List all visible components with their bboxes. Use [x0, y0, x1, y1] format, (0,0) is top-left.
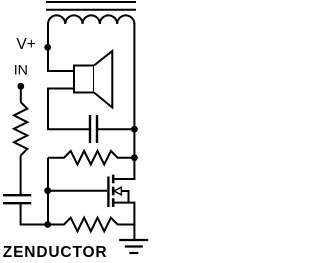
wire: R1 to capacitor C2	[20, 156, 22, 194]
MOSFET Q1 gate bar	[107, 177, 109, 208]
MOSFET Q1 body arrow	[114, 187, 121, 195]
ground bar 2	[125, 245, 143, 247]
resistor R1 (input, vertical)	[14, 102, 27, 156]
MOSFET Q1 channel segment (drain)	[112, 175, 115, 184]
junction dot C1 to right rail	[131, 126, 138, 133]
MOSFET Q1 body-to-source connection	[121, 191, 128, 203]
capacitor C1 right plate	[96, 115, 98, 143]
wire: gate node rail (left, vertical)	[47, 158, 49, 225]
wire: speaker bottom lead down-left to capacitor C1	[48, 89, 90, 130]
wire: gate lead	[48, 190, 107, 192]
resistor R2 (feedback, horizontal)	[48, 151, 134, 165]
junction dot bottom-left tee	[44, 221, 51, 228]
wire: capacitor C1 right lead to right rail	[97, 128, 134, 130]
MOSFET Q1 channel segment (source)	[112, 198, 115, 207]
svg-text:ZENDUCTOR: ZENDUCTOR	[3, 244, 108, 261]
wire: V+ rail from inductor left end down to speaker top lead	[48, 23, 74, 71]
wire: IN node stub	[20, 86, 22, 102]
MOSFET Q1 channel segment (body)	[112, 187, 115, 196]
wire: capacitor C2 to bottom rail	[21, 204, 48, 224]
junction dot IN node	[17, 83, 24, 90]
svg-text:V+: V+	[16, 36, 35, 53]
junction dot R2 to right rail	[131, 154, 138, 161]
inductor L1 winding	[48, 15, 134, 24]
ground bar 3	[129, 252, 138, 254]
inductor L1 core line 1	[46, 1, 136, 3]
junction dot gate tee	[44, 187, 51, 194]
inductor L1 core line 2	[46, 9, 136, 11]
svg-text:IN: IN	[14, 63, 28, 79]
speaker SPK1 driver box	[74, 66, 94, 93]
capacitor C2 top plate	[3, 194, 31, 196]
resistor R3 (source, horizontal bottom)	[48, 218, 134, 232]
wire: right rail from inductor right end down to MOSFET drain	[113, 23, 134, 179]
capacitor C2 bottom plate	[3, 202, 31, 204]
wire: source lead to bottom rail and ground	[113, 203, 134, 239]
ground bar 1	[119, 239, 148, 241]
capacitor C1 left plate	[89, 115, 91, 143]
junction dot V+ node	[44, 44, 51, 51]
speaker SPK1 cone	[94, 51, 112, 108]
